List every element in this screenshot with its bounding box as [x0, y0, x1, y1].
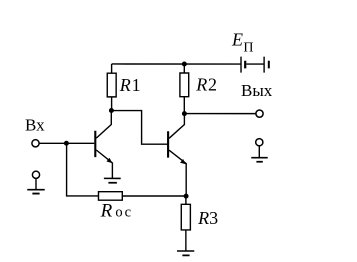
svg-text:П: П — [243, 40, 253, 55]
node Q1 collector junction — [109, 108, 114, 113]
svg-text:3: 3 — [209, 208, 218, 228]
node emitter/R3/Roc junction — [184, 194, 189, 199]
svg-text:ос: ос — [115, 204, 132, 220]
terminal output circle — [256, 110, 263, 117]
svg-text:R: R — [195, 75, 207, 95]
resistor Roc — [98, 192, 122, 201]
svg-text:E: E — [231, 30, 243, 50]
ground terminal near output — [251, 139, 267, 162]
ground under VT1 emitter — [104, 178, 121, 182]
wire top rail — [112, 63, 241, 65]
svg-text:Вх: Вх — [25, 115, 45, 134]
svg-text:2: 2 — [208, 75, 217, 95]
transistor VT2 — [168, 114, 186, 196]
wire feedback right — [122, 195, 186, 197]
svg-text:R: R — [197, 208, 209, 228]
node top rail / R2 junction — [182, 62, 187, 67]
resistor R3 — [181, 196, 190, 251]
svg-text:R: R — [100, 200, 113, 221]
terminal input circle — [32, 140, 39, 147]
ground terminal near input — [27, 171, 44, 193]
svg-text:Вых: Вых — [241, 81, 273, 100]
wire output — [184, 113, 256, 115]
resistor R1 — [107, 64, 116, 111]
svg-text:R: R — [119, 75, 131, 95]
wire input — [39, 142, 66, 144]
node Q2 collector junction — [182, 111, 187, 116]
resistor R2 — [180, 64, 189, 114]
ground under R3 — [177, 251, 194, 255]
node input junction — [64, 141, 69, 146]
battery EP — [241, 57, 269, 73]
svg-text:1: 1 — [132, 75, 141, 95]
transistor VT1 — [66, 110, 112, 178]
wire feedback left — [67, 143, 99, 196]
wire Q1 collector to Q2 base — [111, 111, 167, 145]
